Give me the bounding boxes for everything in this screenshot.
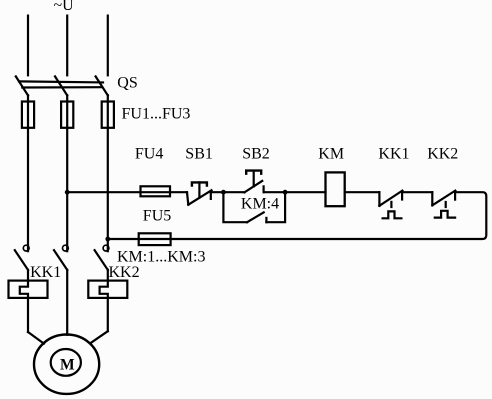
wire L3 through KK2 heater with jog	[100, 270, 108, 331]
svg-text:FU1...FU3: FU1...FU3	[122, 105, 191, 122]
node KM:4 right junction dot	[283, 190, 288, 195]
contact KM:2 fixed circle	[63, 245, 69, 251]
svg-text:FU4: FU4	[135, 145, 163, 162]
switch QS pole 1 blade	[16, 76, 28, 95]
node KM:4 left junction dot	[221, 190, 226, 195]
svg-text:FU5: FU5	[143, 208, 171, 225]
button SB2 blade	[244, 181, 262, 193]
wire right return: KK2 to bottom line	[108, 192, 487, 239]
svg-text:SB1: SB1	[185, 145, 213, 162]
contact KM:2 blade	[54, 250, 67, 270]
wire phase L1 top	[27, 16, 29, 76]
wire L1 through KK1 heater with jog	[20, 270, 28, 332]
thermal element KK2 heater box	[88, 281, 127, 298]
contact KK2 actuator dash	[445, 202, 447, 207]
wire SB1 to SB2	[211, 191, 245, 193]
wire phase L2 top	[66, 16, 68, 76]
svg-text:QS: QS	[117, 75, 137, 92]
wire phase L3 top	[107, 16, 109, 76]
wire L3 to motor	[90, 331, 108, 343]
svg-text:KM:1...KM:3: KM:1...KM:3	[117, 248, 205, 265]
contact KM:3 fixed circle	[103, 245, 109, 251]
wire L2 from QS to node A	[66, 95, 68, 192]
contact KM:4 left branch wire	[223, 192, 247, 222]
contact KM:1 fixed circle	[23, 245, 29, 251]
wire SB2 to KM coil	[264, 191, 326, 193]
svg-text:KM:4: KM:4	[241, 196, 279, 213]
fuse FU5	[139, 233, 171, 245]
fuse FU3	[102, 102, 114, 128]
contact KK1 right tick	[401, 192, 403, 199]
contact KK2 blade	[432, 191, 455, 206]
svg-text:M: M	[60, 357, 75, 374]
switch QS linkage bar	[19, 81, 103, 87]
wire L3 from QS to node B	[107, 95, 109, 239]
button SB1 actuator stem	[198, 182, 200, 197]
contact KK2 left drop	[431, 192, 433, 205]
contact KM:3 blade	[95, 250, 108, 270]
wire KM coil to KK1 contact	[345, 191, 380, 193]
node B junction dot	[105, 237, 110, 242]
node A junction dot	[65, 190, 70, 195]
contact KM:4 right contact tick	[265, 218, 267, 222]
contact KK1 left drop	[378, 192, 380, 206]
svg-text:~U: ~U	[54, 0, 75, 14]
fuse FU1	[22, 102, 34, 128]
wire L2 to motor	[66, 270, 68, 335]
contact KK1 thermal bump symbol	[383, 211, 402, 218]
button SB2 actuator stem	[253, 171, 255, 187]
fuse FU4	[141, 186, 171, 196]
svg-text:KK1: KK1	[378, 145, 409, 162]
svg-text:KM: KM	[318, 145, 344, 162]
button SB1 left drop	[187, 192, 188, 205]
wire control line from node A to SB1	[67, 191, 187, 193]
motor M outer circle	[34, 335, 99, 394]
motor M inner circle	[51, 349, 81, 376]
switch QS pole 2 blade	[55, 76, 67, 95]
contact KK2 right tick	[454, 192, 456, 199]
contact KM:4 blade	[247, 212, 264, 222]
wire L2 from node A to KM:2	[66, 192, 68, 251]
contact KM:1 blade	[15, 250, 28, 270]
svg-text:SB2: SB2	[242, 145, 270, 162]
wire L1 to motor	[28, 332, 44, 344]
button SB1 actuator bar	[192, 182, 207, 185]
wire KK1 to KK2 contact	[402, 191, 432, 193]
contact KK2 thermal bump symbol	[435, 211, 455, 218]
contact KK1 blade	[379, 191, 402, 206]
wire L1 from QS to KM:1	[27, 95, 29, 251]
button SB1 right contact tick	[210, 192, 212, 199]
contact KM:4 right branch wire	[266, 192, 285, 222]
thermal element KK1 heater box	[9, 281, 48, 298]
button SB2 right contact tick	[263, 186, 265, 192]
contact KK1 actuator dash	[390, 202, 392, 207]
button SB2 actuator bar	[246, 171, 261, 174]
button SB1 blade	[188, 190, 211, 204]
svg-text:KK2: KK2	[427, 145, 458, 162]
svg-text:KK1: KK1	[30, 264, 61, 281]
fuse FU2	[61, 102, 73, 128]
wire L3 from node B to KM:3	[107, 239, 109, 251]
svg-text:KK2: KK2	[109, 264, 140, 281]
switch QS pole 3 blade	[96, 76, 108, 95]
coil KM	[326, 172, 345, 206]
